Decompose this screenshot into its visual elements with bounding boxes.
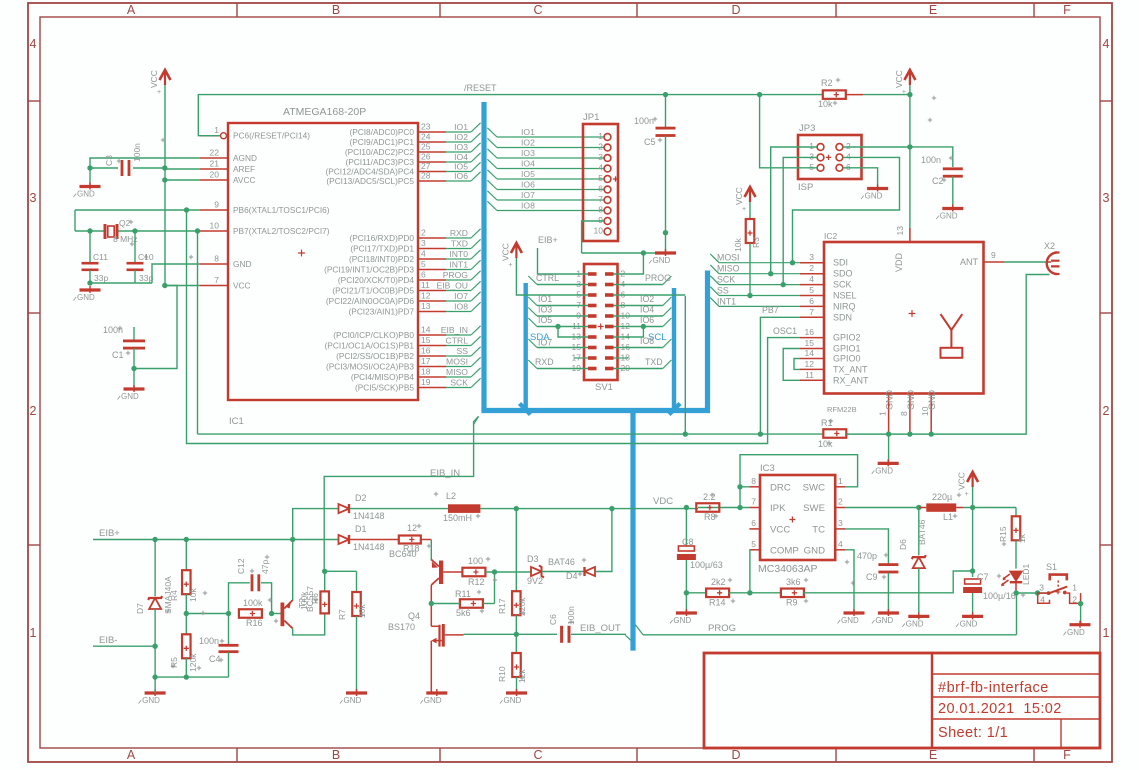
svg-text:2: 2 bbox=[598, 142, 603, 152]
wire C3 gnd stem bbox=[89, 168, 91, 187]
svg-text:4: 4 bbox=[809, 274, 814, 284]
IC2 left pins bbox=[800, 262, 824, 264]
node C3-vert bbox=[162, 165, 167, 170]
resistor R9 bbox=[750, 592, 782, 594]
bus horizontal main bbox=[481, 408, 710, 413]
node R1 gnd c bbox=[929, 431, 934, 436]
svg-text:D: D bbox=[731, 3, 740, 17]
svg-text:MISO: MISO bbox=[446, 367, 468, 377]
node MOSI-ISP bbox=[790, 260, 795, 265]
wire L1 to VCC node bbox=[963, 507, 1016, 509]
ground under R1 row bbox=[878, 462, 899, 465]
resistor R17 bbox=[515, 509, 517, 591]
wire XTAL2 long row bbox=[197, 231, 199, 434]
IC2 GND pins 1 8 10 bbox=[888, 394, 890, 435]
node S1 pin3 bbox=[1035, 590, 1040, 595]
node L1-VCC bbox=[970, 505, 975, 510]
svg-text:IO1: IO1 bbox=[454, 122, 468, 132]
svg-text:C7: C7 bbox=[977, 572, 989, 582]
svg-text:GND: GND bbox=[940, 212, 958, 221]
ground below R7 bbox=[346, 691, 367, 694]
svg-text:GND: GND bbox=[885, 390, 895, 411]
svg-text:VCC: VCC bbox=[149, 70, 159, 88]
svg-text:VDC: VDC bbox=[653, 496, 673, 507]
svg-text:VCC: VCC bbox=[770, 524, 790, 535]
node VCC-C2 bbox=[907, 144, 912, 149]
ground below JP3 bbox=[867, 187, 888, 190]
wire XTAL2 row bbox=[75, 230, 105, 232]
svg-text:EIB+: EIB+ bbox=[99, 528, 120, 539]
node R1 gnd a bbox=[886, 431, 891, 436]
diode D4 BAT46 bbox=[585, 567, 596, 576]
svg-text:1: 1 bbox=[1103, 626, 1110, 640]
svg-text:RXD: RXD bbox=[450, 228, 468, 238]
node XTAL2 wireA tap bbox=[195, 228, 200, 233]
svg-text:(PCI19/INT1/OC2B)PD3: (PCI19/INT1/OC2B)PD3 bbox=[324, 265, 414, 275]
svg-text:C11: C11 bbox=[93, 252, 108, 262]
resistor R16 bbox=[239, 609, 262, 618]
svg-text:Q2: Q2 bbox=[119, 218, 131, 228]
svg-text:GPIO0: GPIO0 bbox=[833, 354, 861, 364]
svg-text:47p: 47p bbox=[260, 560, 270, 574]
svg-text:SWC: SWC bbox=[803, 482, 825, 493]
frame ticks bbox=[236, 3, 238, 17]
svg-text:8: 8 bbox=[214, 254, 219, 264]
svg-text:IO6: IO6 bbox=[454, 171, 468, 181]
svg-text:4: 4 bbox=[1040, 595, 1045, 605]
svg-text:6: 6 bbox=[421, 270, 426, 280]
wire R14-COMP bbox=[729, 592, 750, 594]
svg-text:IC1: IC1 bbox=[229, 416, 244, 427]
svg-text:SS: SS bbox=[457, 346, 469, 356]
wire VCC pin7 bbox=[165, 285, 200, 287]
svg-text:2: 2 bbox=[421, 228, 426, 238]
svg-text:C3: C3 bbox=[104, 155, 114, 166]
svg-text:GPIO2: GPIO2 bbox=[833, 333, 861, 343]
svg-text:EIB_OU: EIB_OU bbox=[436, 281, 468, 291]
svg-text:10k: 10k bbox=[733, 238, 743, 252]
svg-text:14: 14 bbox=[805, 348, 815, 358]
svg-text:6: 6 bbox=[598, 184, 603, 194]
diode D1 1N4148 bbox=[339, 535, 350, 544]
svg-text:COMP: COMP bbox=[770, 545, 799, 556]
wire D2 to L2 bbox=[350, 508, 449, 510]
svg-text:16: 16 bbox=[421, 346, 431, 356]
svg-text:GND: GND bbox=[77, 190, 95, 199]
svg-text:C1: C1 bbox=[112, 350, 124, 360]
svg-text:8 MHz: 8 MHz bbox=[113, 234, 138, 244]
op IC3 MC34063AP body bbox=[760, 475, 835, 560]
svg-text:CTRL: CTRL bbox=[446, 336, 469, 346]
power VCC arrow top left bbox=[160, 70, 171, 80]
resistor R7 bbox=[356, 571, 358, 593]
svg-text:PB6(XTAL1/TOSC1/PCI6): PB6(XTAL1/TOSC1/PCI6) bbox=[233, 205, 330, 215]
wires SPI nets to RFM bbox=[719, 262, 800, 264]
power VCC arrow above L1 bbox=[967, 472, 978, 482]
IC1 right pins bbox=[418, 131, 446, 133]
svg-text:(PCI12/ADC4/SDA)PC4: (PCI12/ADC4/SDA)PC4 bbox=[325, 167, 414, 177]
crystal Q2 bbox=[104, 224, 107, 239]
svg-text:C4: C4 bbox=[209, 654, 221, 664]
svg-text:9: 9 bbox=[598, 215, 603, 225]
svg-text:8: 8 bbox=[598, 205, 603, 215]
svg-text:R9: R9 bbox=[786, 598, 798, 608]
wire R18 to T BC640 bbox=[421, 539, 432, 541]
svg-text:2: 2 bbox=[30, 404, 37, 418]
wire D1 to R18 bbox=[350, 539, 399, 541]
wire S1 to gnd bbox=[1080, 603, 1082, 621]
wire SV1 pin2 gnd row bbox=[582, 252, 666, 254]
svg-text:GPIO1: GPIO1 bbox=[833, 344, 861, 354]
node EIB+ R4 bbox=[184, 537, 189, 542]
svg-text:B: B bbox=[332, 3, 340, 17]
svg-text:(PCI18/INT0)PD2: (PCI18/INT0)PD2 bbox=[349, 254, 414, 264]
svg-text:2: 2 bbox=[846, 141, 851, 151]
svg-text:CTRL: CTRL bbox=[536, 273, 559, 283]
svg-text:GND: GND bbox=[344, 696, 362, 705]
svg-text:1: 1 bbox=[598, 131, 603, 141]
node R4R5-R16 bbox=[184, 611, 189, 616]
svg-text:D2: D2 bbox=[355, 493, 367, 503]
capacitor C3 bbox=[121, 160, 124, 176]
svg-text:17: 17 bbox=[421, 356, 431, 366]
svg-text:IO3: IO3 bbox=[538, 305, 552, 315]
node VCC pin7 bbox=[162, 283, 167, 288]
svg-text:D3: D3 bbox=[527, 554, 539, 564]
capacitor C10 bbox=[134, 231, 136, 263]
power VCC arrow above R3 bbox=[745, 187, 756, 197]
svg-text:R7: R7 bbox=[337, 609, 347, 620]
wire PB7 row bbox=[685, 296, 823, 434]
svg-text:R6: R6 bbox=[310, 593, 320, 604]
svg-text:3: 3 bbox=[809, 151, 814, 161]
svg-text:8: 8 bbox=[899, 411, 909, 416]
gray origin cross marks bbox=[653, 117, 657, 121]
wire T1 collector bbox=[293, 614, 325, 635]
wire C3 right bbox=[133, 167, 165, 169]
node AVCC bbox=[162, 177, 167, 182]
connector JP1 bbox=[583, 124, 618, 241]
node SWE-D6 bbox=[916, 505, 921, 510]
wire R3 to SS row bbox=[749, 243, 751, 296]
wire RXD SV1 pin19 bbox=[537, 368, 588, 370]
svg-text:C8: C8 bbox=[682, 537, 694, 547]
svg-text:D: D bbox=[731, 748, 740, 762]
node C1 gnd bbox=[131, 366, 136, 371]
svg-text:12k: 12k bbox=[517, 669, 527, 683]
capacitor C7 bbox=[965, 579, 981, 584]
svg-text:GND: GND bbox=[906, 390, 916, 411]
capacitor C6 bbox=[560, 626, 563, 643]
svg-text:PROG: PROG bbox=[645, 273, 671, 283]
node EIB+ T1 bbox=[290, 537, 295, 542]
wire bottom gnd row bbox=[155, 676, 228, 678]
svg-text:SWE: SWE bbox=[803, 503, 825, 514]
wire BC640 base to R12 bbox=[443, 571, 462, 573]
svg-text:IO6: IO6 bbox=[640, 315, 654, 325]
IC1 left pins bbox=[200, 135, 220, 137]
svg-text:3: 3 bbox=[598, 152, 603, 162]
svg-text:IO5: IO5 bbox=[538, 315, 552, 325]
wire PROG SV1 pin4 bbox=[614, 284, 663, 286]
svg-text:IO2: IO2 bbox=[454, 132, 468, 142]
svg-text:3: 3 bbox=[838, 518, 843, 528]
svg-text:6: 6 bbox=[846, 162, 851, 172]
svg-text:R16: R16 bbox=[246, 618, 263, 628]
svg-text:IC3: IC3 bbox=[760, 463, 775, 474]
svg-text:10: 10 bbox=[594, 226, 604, 236]
wire JP1 pin9 to GND row bbox=[582, 221, 604, 253]
node C5-JP1pin10 bbox=[663, 230, 668, 235]
capacitor C12 parallel bbox=[229, 583, 250, 614]
svg-text:INT1: INT1 bbox=[449, 260, 468, 270]
svg-text:IO7: IO7 bbox=[538, 338, 552, 348]
svg-text:2: 2 bbox=[838, 497, 843, 507]
svg-text:VDD: VDD bbox=[894, 252, 904, 272]
svg-text:LED1: LED1 bbox=[1021, 563, 1031, 585]
resistor R14 bbox=[706, 589, 729, 598]
wire ISP MOSI pin4 bbox=[793, 157, 900, 262]
wire caps gnd row bbox=[89, 270, 91, 283]
node SCL-IO6 bbox=[641, 324, 646, 329]
svg-text:26: 26 bbox=[421, 152, 431, 162]
svg-text:1: 1 bbox=[214, 125, 219, 135]
capacitor C8 bbox=[685, 508, 687, 547]
svg-text:IO7: IO7 bbox=[521, 190, 535, 200]
svg-text:11: 11 bbox=[421, 280, 430, 290]
wire ISP SCK pin3 bbox=[783, 157, 817, 284]
svg-text:VCC: VCC bbox=[957, 472, 967, 490]
svg-text:1: 1 bbox=[878, 411, 888, 416]
svg-text:EIB_IN: EIB_IN bbox=[441, 325, 468, 335]
svg-text:(PCI5/SCK)PB5: (PCI5/SCK)PB5 bbox=[355, 383, 414, 393]
transistor BC640 bbox=[439, 561, 443, 585]
wire DRC-IPK bbox=[739, 487, 741, 508]
svg-text:RXD: RXD bbox=[535, 357, 554, 367]
capacitor C2 bbox=[943, 167, 963, 170]
inductor L2 bbox=[448, 504, 480, 513]
transistor T1 BC557 bbox=[281, 603, 285, 627]
svg-text:(PCI22/AIN0OC0A)PD6: (PCI22/AIN0OC0A)PD6 bbox=[326, 296, 414, 306]
node C10 top bbox=[132, 228, 137, 233]
wire IO1 SV1 pin7 bbox=[537, 305, 588, 307]
svg-text:24: 24 bbox=[421, 132, 431, 142]
ground below R10 bbox=[506, 691, 527, 694]
svg-text:IO2: IO2 bbox=[521, 138, 535, 148]
capacitor C9 bbox=[878, 563, 898, 566]
svg-text:GND: GND bbox=[233, 259, 251, 269]
node C7 top bbox=[970, 568, 975, 573]
svg-text:IO5: IO5 bbox=[521, 169, 535, 179]
wire SV1 pin2 gnd bbox=[614, 253, 644, 274]
node rowA-SV1pin6 bbox=[683, 431, 688, 436]
svg-text:Q4: Q4 bbox=[408, 611, 420, 621]
svg-text:(PCI13/ADC5/SCL)PC5: (PCI13/ADC5/SCL)PC5 bbox=[326, 176, 414, 186]
node gnd row D7 bbox=[152, 674, 157, 679]
connector SV1 bbox=[584, 264, 618, 380]
ground below S1 bbox=[1070, 623, 1091, 626]
svg-text:SCK: SCK bbox=[833, 280, 852, 290]
svg-text:C: C bbox=[533, 3, 542, 17]
svg-text:GND: GND bbox=[875, 467, 893, 476]
svg-text:SV1: SV1 bbox=[595, 382, 613, 393]
svg-text:MC34063AP: MC34063AP bbox=[758, 563, 818, 575]
wire D3 to D4 bbox=[542, 571, 584, 573]
wire AGND bbox=[90, 158, 200, 168]
svg-text:120k: 120k bbox=[188, 653, 198, 672]
wire VCC to VDD bbox=[909, 147, 911, 228]
svg-text:9: 9 bbox=[214, 200, 219, 210]
node R8-IPK bbox=[737, 505, 742, 510]
resistor R5 bbox=[182, 634, 191, 658]
resistor R6 bbox=[324, 571, 326, 590]
svg-text:VCC: VCC bbox=[894, 70, 904, 88]
node EIB+ D7 bbox=[152, 537, 157, 542]
wire PROG up to S1 bbox=[1016, 593, 1018, 635]
svg-text:BAT46: BAT46 bbox=[917, 519, 927, 545]
svg-text:28: 28 bbox=[421, 171, 431, 181]
resistor R10 bbox=[515, 634, 517, 653]
bus entry stubs bbox=[471, 123, 481, 132]
svg-text:GND: GND bbox=[77, 293, 95, 302]
wire EIB_IN bbox=[324, 416, 478, 571]
svg-text:E: E bbox=[929, 748, 937, 762]
wire R10 gnd bbox=[516, 677, 518, 693]
svg-text:220µ: 220µ bbox=[932, 492, 952, 502]
svg-text:(PCI23/AIN1)PD7: (PCI23/AIN1)PD7 bbox=[349, 307, 415, 317]
svg-text:ANT: ANT bbox=[960, 257, 979, 267]
svg-text:(PCI20/XCK/T0)PD4: (PCI20/XCK/T0)PD4 bbox=[338, 275, 414, 285]
IC2 origin cross bbox=[909, 310, 916, 317]
svg-text:RFM22B: RFM22B bbox=[827, 405, 857, 414]
svg-text:D1: D1 bbox=[355, 524, 367, 534]
IC2 ANT pin 9 bbox=[984, 261, 1005, 263]
svg-text:SCK: SCK bbox=[450, 378, 468, 388]
bus RFM vertical bbox=[705, 271, 710, 409]
svg-text:R11: R11 bbox=[455, 589, 471, 599]
svg-text:(PCI21/T1/OC0B)PD5: (PCI21/T1/OC0B)PD5 bbox=[332, 286, 414, 296]
wire TC to C9 bbox=[845, 529, 888, 564]
svg-text:3: 3 bbox=[1039, 583, 1044, 593]
svg-text:10k: 10k bbox=[818, 99, 833, 109]
svg-text:IC2: IC2 bbox=[824, 231, 838, 241]
svg-text:PB7(XTAL2/TOSC2/PCI7): PB7(XTAL2/TOSC2/PCI7) bbox=[233, 226, 330, 236]
svg-text:5: 5 bbox=[751, 539, 756, 549]
wire R16 node row bbox=[186, 613, 228, 615]
svg-text:15: 15 bbox=[805, 338, 815, 348]
svg-text:(PCI0/ICP/CLKO)PB0: (PCI0/ICP/CLKO)PB0 bbox=[333, 330, 414, 340]
wire DRC-SWC loop bbox=[740, 455, 858, 487]
wire IO7 SV1 pin15 bbox=[537, 347, 588, 349]
node R3-SS bbox=[747, 293, 752, 298]
svg-text:GND: GND bbox=[875, 616, 893, 625]
svg-text:19: 19 bbox=[421, 377, 431, 387]
svg-text:3: 3 bbox=[30, 191, 37, 205]
wire gnd stub bbox=[888, 434, 890, 463]
wire OSC1 GPIO2 bbox=[187, 210, 801, 444]
ground below D6 bbox=[908, 615, 929, 618]
diode D7 SMAJ40A bbox=[154, 540, 156, 597]
svg-text:R2: R2 bbox=[821, 78, 833, 88]
wire AREF bbox=[165, 168, 200, 170]
svg-text:#brf-fb-interface: #brf-fb-interface bbox=[938, 680, 1049, 696]
IC3 pins bbox=[749, 486, 760, 488]
svg-text:100µ/63: 100µ/63 bbox=[690, 560, 723, 570]
node R16 right bbox=[269, 611, 274, 616]
wire AVCC bbox=[165, 179, 200, 181]
wire GPIO1 RX_ANT bracket bbox=[783, 349, 800, 381]
wire ISP GND pin6 bbox=[843, 168, 878, 188]
svg-text:(PCI10/ADC2)PC2: (PCI10/ADC2)PC2 bbox=[345, 147, 415, 157]
node EIB- D7 bbox=[152, 644, 157, 649]
svg-text:4: 4 bbox=[421, 249, 426, 259]
node EIB_IN R6R7 bbox=[322, 569, 327, 574]
svg-text:9: 9 bbox=[991, 250, 996, 260]
wire C3 left bbox=[90, 167, 118, 169]
wire GND pin4 bbox=[845, 550, 854, 613]
ground bottom left bbox=[145, 691, 166, 694]
svg-text:A: A bbox=[127, 748, 136, 762]
wire R7 gnd bbox=[356, 616, 358, 693]
ground below C8R14 bbox=[676, 611, 697, 614]
wire XTAL1 down bbox=[74, 210, 76, 231]
wire GND pin8 bbox=[152, 264, 200, 283]
wire BS170 drain bbox=[464, 633, 557, 635]
wire IO2 SV1 pin8 bbox=[614, 305, 663, 307]
wire R15 to LED bbox=[1015, 540, 1017, 568]
svg-text:IO8: IO8 bbox=[454, 302, 468, 312]
wire R11 right bbox=[483, 603, 495, 605]
connector JP3 ISP bbox=[798, 135, 862, 179]
svg-text:C2: C2 bbox=[932, 176, 944, 186]
svg-text:AVCC: AVCC bbox=[233, 175, 255, 185]
node R1 gnd b bbox=[907, 431, 912, 436]
svg-text:IO4: IO4 bbox=[640, 305, 654, 315]
node SCK-ISP bbox=[781, 282, 786, 287]
wires IC1 pins to IO bus with net labels bbox=[446, 131, 471, 133]
svg-text:F: F bbox=[1063, 748, 1071, 762]
node EIB_OUT R10 bbox=[514, 632, 519, 637]
svg-text:TXD: TXD bbox=[451, 239, 468, 249]
svg-text:VCC: VCC bbox=[233, 281, 251, 291]
svg-text:2: 2 bbox=[809, 263, 814, 273]
ground below C2 bbox=[942, 207, 963, 210]
svg-text:5k6: 5k6 bbox=[456, 608, 471, 618]
svg-text:DRC: DRC bbox=[770, 482, 791, 493]
op IC1 ATMEGA168-20P body bbox=[228, 123, 418, 400]
svg-text:IO5: IO5 bbox=[454, 162, 468, 172]
svg-text:BS170: BS170 bbox=[388, 622, 415, 632]
svg-text:EIB_IN: EIB_IN bbox=[430, 468, 460, 479]
node caps gnd bbox=[87, 280, 92, 285]
wire SWE to L1 bbox=[845, 507, 918, 509]
svg-text:13: 13 bbox=[895, 226, 905, 236]
wire IO8 SV1 pin16 bbox=[614, 347, 663, 349]
svg-text:1N4148: 1N4148 bbox=[353, 511, 385, 521]
diode D2 1N4148 bbox=[339, 504, 350, 513]
wire long row A bbox=[198, 433, 686, 435]
wire R9 to C7 node bbox=[803, 571, 972, 593]
title block outline bbox=[704, 653, 1100, 748]
svg-text:9V2: 9V2 bbox=[527, 576, 543, 586]
svg-text:20: 20 bbox=[210, 170, 220, 180]
svg-text:MISO: MISO bbox=[717, 264, 740, 274]
svg-text:(PCI16/RXD)PD0: (PCI16/RXD)PD0 bbox=[349, 233, 414, 243]
node C11 top bbox=[87, 228, 92, 233]
svg-text:INT0: INT0 bbox=[449, 249, 468, 259]
IC2 antenna glyph bbox=[941, 314, 963, 330]
svg-text:SDO: SDO bbox=[833, 269, 853, 279]
